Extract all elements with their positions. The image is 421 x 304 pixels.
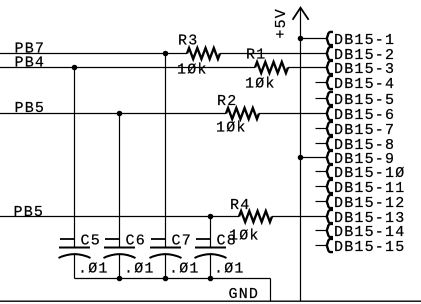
svg-text:C7: C7	[172, 232, 192, 249]
svg-text:PB5: PB5	[14, 204, 45, 221]
junction PB4/C5	[72, 65, 78, 71]
power +5V arrow symbol	[273, 8, 309, 39]
wire R3 to DB15-2	[220, 53, 327, 55]
svg-text:DB15-15: DB15-15	[334, 239, 405, 256]
junction PB5/C8	[208, 214, 214, 220]
wire net PB5 upper (left edge to R2)	[0, 113, 226, 115]
connector pin DB15-12	[316, 195, 406, 212]
svg-text:R3: R3	[178, 32, 198, 49]
connector pin DB15-10	[316, 165, 406, 182]
svg-text:PB4: PB4	[15, 54, 46, 71]
junction C8 ground	[208, 276, 214, 282]
svg-text:R1: R1	[246, 46, 266, 63]
wire R4 to DB15-13	[272, 216, 327, 218]
junction +5V/DB15-9	[298, 155, 304, 161]
wire R1 to DB15-3	[288, 67, 327, 69]
wire vertical PB5 to C8	[210, 217, 212, 248]
svg-text:R4: R4	[230, 197, 250, 214]
svg-text:C6: C6	[126, 232, 146, 249]
connector pin DB15-13	[327, 210, 406, 227]
connector pin DB15-15	[316, 239, 406, 256]
connector pin DB15-2	[327, 47, 395, 64]
junction PB7/C7	[163, 51, 169, 57]
resistor R4 10k	[229, 197, 272, 245]
capacitor C5	[59, 232, 109, 278]
svg-text:1Øk: 1Øk	[216, 120, 247, 137]
capacitor C7	[150, 232, 200, 278]
junction C6 ground	[117, 276, 123, 282]
svg-text:R2: R2	[217, 93, 237, 110]
svg-text:.Ø1: .Ø1	[124, 261, 155, 278]
junction +5V/DB15-1	[298, 36, 304, 42]
svg-text:.Ø1: .Ø1	[214, 261, 245, 278]
connector pin DB15-9	[301, 151, 396, 168]
wire capacitor ground rail	[75, 278, 271, 280]
svg-text:.Ø1: .Ø1	[78, 261, 109, 278]
capacitor C8	[195, 232, 245, 278]
junction PB5/C6	[117, 111, 123, 117]
wire GND box right edge	[270, 279, 272, 302]
junction C7 ground	[163, 276, 169, 282]
wire vertical PB7 to C7	[165, 54, 167, 248]
svg-text:C5: C5	[81, 232, 101, 249]
svg-text:C8: C8	[217, 232, 237, 249]
connector pin DB15-6	[327, 107, 395, 124]
connector pin DB15-8	[316, 137, 396, 154]
connector pin DB15-14	[316, 224, 406, 241]
resistor R2 10k	[216, 93, 259, 137]
wire +5V vertical rail	[300, 8, 302, 302]
resistor R1 10k	[245, 46, 288, 92]
resistor R3 10k	[177, 32, 220, 78]
connector pin DB15-4	[316, 76, 396, 93]
svg-text:+5V: +5V	[273, 8, 290, 39]
sheet border bottom	[0, 300, 421, 302]
wire net PB7 (left edge to R3)	[0, 53, 187, 55]
svg-text:PB5: PB5	[15, 100, 46, 117]
svg-text:1Øk: 1Øk	[177, 62, 208, 79]
wire vertical PB5 to C6	[119, 114, 121, 248]
wire net PB4 (left edge to R1)	[0, 67, 255, 69]
connector pin DB15-11	[316, 180, 406, 197]
svg-text:1Øk: 1Øk	[245, 76, 276, 93]
wire R2 to DB15-6	[259, 113, 327, 115]
svg-text:DB15-4: DB15-4	[334, 76, 395, 93]
wire net PB5 lower (left edge to R4)	[0, 216, 239, 218]
connector pin DB15-5	[316, 92, 396, 109]
connector pin DB15-3	[327, 61, 395, 78]
wire vertical PB4 to C5	[74, 68, 76, 248]
connector pin DB15-7	[316, 122, 396, 139]
connector pin DB15-1	[301, 32, 396, 49]
svg-text:.Ø1: .Ø1	[169, 261, 200, 278]
capacitor C6	[104, 232, 155, 278]
